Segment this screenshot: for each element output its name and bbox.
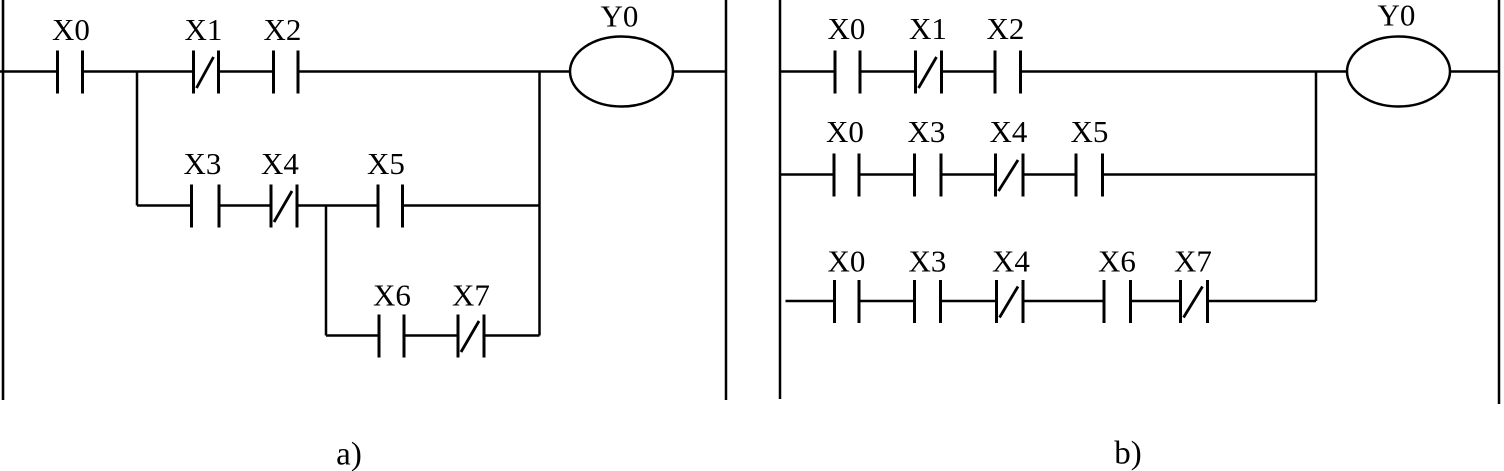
svg-text:X4: X4 (992, 244, 1030, 279)
svg-text:X3: X3 (908, 114, 946, 149)
svg-text:X3: X3 (184, 146, 222, 181)
svg-text:X2: X2 (264, 12, 302, 47)
svg-text:X1: X1 (185, 12, 223, 47)
svg-text:X4: X4 (261, 146, 299, 181)
svg-text:X7: X7 (1174, 244, 1212, 279)
svg-text:X3: X3 (909, 244, 947, 279)
svg-text:X0: X0 (52, 12, 90, 47)
svg-text:X6: X6 (1098, 244, 1136, 279)
svg-text:X6: X6 (373, 278, 411, 313)
svg-text:a): a) (336, 437, 362, 471)
svg-text:X5: X5 (367, 146, 405, 181)
svg-text:Y0: Y0 (1378, 0, 1416, 33)
svg-text:X5: X5 (1071, 114, 1109, 149)
svg-text:X0: X0 (826, 114, 864, 149)
svg-text:X4: X4 (990, 114, 1028, 149)
svg-text:X2: X2 (987, 11, 1025, 46)
svg-text:X0: X0 (828, 244, 866, 279)
svg-text:X7: X7 (452, 278, 490, 313)
svg-text:b): b) (1114, 436, 1142, 471)
svg-text:Y0: Y0 (601, 0, 639, 34)
svg-text:X1: X1 (909, 11, 947, 46)
svg-text:X0: X0 (828, 11, 866, 46)
